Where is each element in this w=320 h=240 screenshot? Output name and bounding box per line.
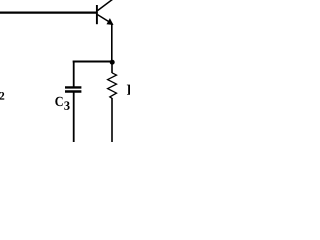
transistor Q1 emitter lead [98, 15, 113, 24]
capacitor C3 top plate [65, 86, 81, 88]
label capacitor C3 [55, 97, 62, 106]
wire emitter to junction [111, 23, 113, 61]
wire capacitor bottom lead [73, 92, 75, 142]
wire resistor bottom lead [111, 98, 113, 142]
wire capacitor top lead [73, 61, 75, 87]
wire base lead [0, 12, 97, 14]
node junction dot [110, 60, 115, 65]
label resistor R (clipped at right edge) [127, 85, 138, 95]
wire resistor top lead [111, 63, 113, 73]
wire junction to capacitor [73, 61, 112, 63]
transistor Q1 collector lead [98, 0, 114, 11]
transistor Q1 base bar [96, 5, 98, 24]
label subscript 2 (clipped at left edge) [0, 92, 4, 100]
transistor Q1 emitter arrowhead [107, 18, 114, 25]
resistor body zigzag [108, 73, 117, 99]
capacitor C3 bottom plate [65, 90, 81, 92]
